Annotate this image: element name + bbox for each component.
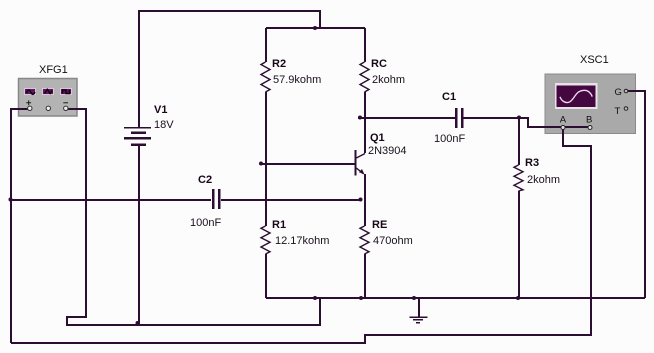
resistor R3 — [514, 165, 523, 191]
svg-text:100nF: 100nF — [190, 217, 221, 229]
pin T — [615, 106, 621, 117]
value R3 2kohm — [527, 174, 560, 186]
label C1 — [442, 91, 456, 103]
label RE — [372, 219, 387, 231]
value 12.17kohm — [275, 235, 329, 247]
value 2N3904 — [368, 145, 407, 157]
wire V1 bottom lead — [138, 146, 140, 325]
value C2 100nF — [190, 217, 221, 229]
value 18V — [154, 119, 174, 131]
resistor RE — [360, 226, 369, 254]
node base junction — [259, 162, 263, 166]
function generator XFG1 body — [19, 79, 78, 117]
battery V1 — [124, 127, 151, 146]
node output junction — [517, 116, 521, 120]
svg-text:R1: R1 — [272, 219, 286, 231]
capacitor C2 — [212, 189, 221, 209]
label R2 — [272, 58, 286, 70]
svg-text:XSC1: XSC1 — [580, 54, 609, 66]
wire R3 bottom lead — [518, 191, 520, 298]
svg-text:B: B — [586, 115, 592, 126]
label RC — [371, 58, 387, 70]
svg-text:470ohm: 470ohm — [373, 235, 413, 247]
wire V1 top to rail — [139, 11, 320, 128]
resistor R2 — [261, 62, 270, 92]
wire R3 top lead — [518, 118, 520, 165]
node rail R3 junction — [516, 296, 520, 300]
pin A — [560, 115, 567, 126]
node input junction — [9, 198, 13, 202]
wire top rail R2-RC — [266, 27, 365, 29]
label R1 — [272, 219, 286, 231]
wire R2 top lead — [265, 28, 267, 62]
transistor Q1 — [355, 150, 366, 176]
wire XFG plus lead — [11, 109, 28, 343]
label V1 — [154, 104, 167, 116]
svg-text:57.9kohm: 57.9kohm — [273, 74, 321, 86]
node rail ground junction — [412, 296, 416, 300]
svg-text:100nF: 100nF — [434, 133, 465, 145]
wire C1 to output node — [464, 117, 520, 119]
wire RC bottom to collector — [364, 92, 366, 153]
node top rail junction — [313, 26, 317, 30]
svg-text:2N3904: 2N3904 — [368, 145, 407, 157]
wire scope G to ground rail — [628, 91, 645, 298]
oscilloscope XSC1 terminals — [561, 89, 628, 129]
svg-text:T: T — [615, 106, 621, 117]
node emitter junction — [359, 198, 363, 202]
svg-text:A: A — [560, 115, 567, 126]
svg-text:C1: C1 — [442, 91, 456, 103]
label XSC1 — [580, 54, 609, 66]
oscilloscope XSC1 body — [545, 74, 636, 134]
wire R1 bottom lead — [265, 254, 267, 298]
wire output node to scope B — [519, 118, 590, 127]
node rail left junction — [313, 296, 317, 300]
wire R2 bottom to R1 top — [265, 92, 267, 226]
svg-text:G: G — [615, 87, 622, 98]
svg-text:18V: 18V — [154, 119, 174, 131]
label C2 — [198, 174, 212, 186]
value 57.9kohm — [273, 74, 321, 86]
svg-text:V1: V1 — [154, 104, 167, 116]
wire RC top lead — [364, 28, 366, 62]
value RC 2kohm — [372, 74, 405, 86]
svg-text:2kohm: 2kohm — [527, 174, 560, 186]
wire scope A return loop — [11, 129, 591, 343]
wire emitter to RE — [364, 174, 366, 226]
ground — [410, 298, 428, 323]
value C1 100nF — [434, 133, 465, 145]
label R3 — [525, 157, 539, 169]
capacitor C1 — [455, 108, 464, 128]
wire collector node to C1 — [358, 117, 455, 119]
svg-text:12.17kohm: 12.17kohm — [275, 235, 329, 247]
svg-text:XFG1: XFG1 — [39, 64, 68, 76]
wire XFG minus return — [67, 109, 320, 325]
wire input node to C2 — [11, 199, 211, 201]
node rail RE junction — [359, 296, 363, 300]
wire base — [261, 163, 355, 165]
node collector junction — [358, 116, 362, 120]
wire RE bottom lead — [364, 254, 366, 298]
svg-text:Q1: Q1 — [370, 132, 385, 144]
svg-text:2kohm: 2kohm — [372, 74, 405, 86]
pin G — [615, 87, 622, 98]
svg-text:RE: RE — [372, 219, 387, 231]
label XFG1 — [39, 64, 68, 76]
node V1 bottom junction — [136, 321, 140, 325]
wire C2 to emitter node — [221, 199, 362, 201]
value 470ohm — [373, 235, 413, 247]
svg-text:C2: C2 — [198, 174, 212, 186]
function generator XFG1 terminals — [28, 106, 68, 110]
label Q1 — [370, 132, 385, 144]
svg-text:RC: RC — [371, 58, 387, 70]
resistor RC — [360, 62, 369, 92]
svg-text:R3: R3 — [525, 157, 539, 169]
svg-text:R2: R2 — [272, 58, 286, 70]
resistor R1 — [261, 226, 270, 254]
wire ground rail — [266, 297, 645, 299]
pin B — [586, 115, 592, 126]
